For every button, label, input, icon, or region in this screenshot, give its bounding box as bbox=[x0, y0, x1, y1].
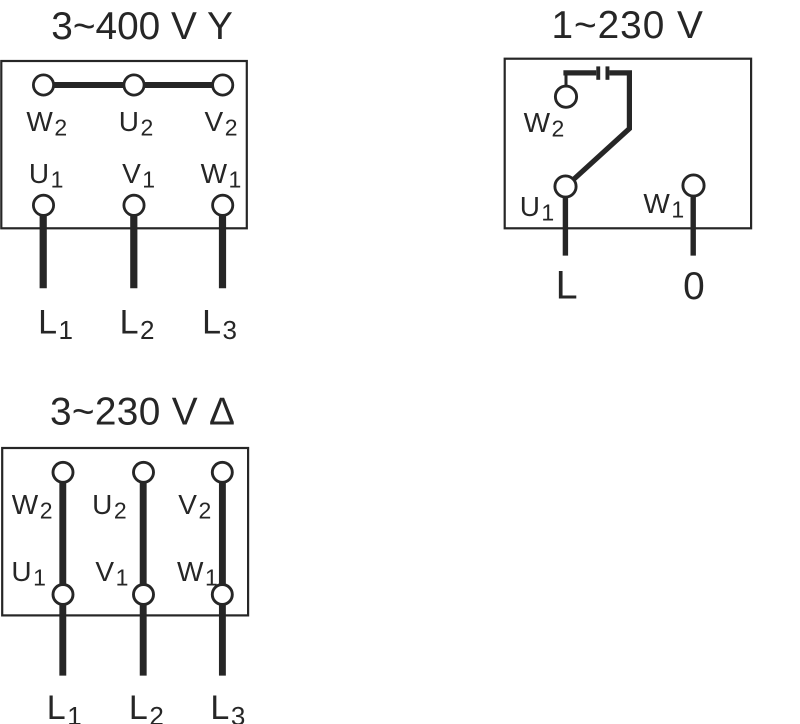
wire: U2-V1 link and lead L2 bbox=[140, 472, 147, 675]
terminal box (star) bbox=[1, 61, 247, 228]
terminal U2 (circle) bbox=[134, 462, 154, 482]
terminal U1 (circle) bbox=[53, 585, 73, 605]
terminal V1 (circle) bbox=[124, 195, 144, 215]
terminal W2 (circle) bbox=[555, 86, 576, 107]
terminal U1 (circle) bbox=[33, 195, 53, 215]
svg-text:W1: W1 bbox=[177, 556, 218, 591]
svg-text:W2: W2 bbox=[26, 106, 67, 141]
svg-text:U2: U2 bbox=[119, 106, 154, 141]
svg-text:0: 0 bbox=[683, 265, 705, 308]
terminal U1 (circle) bbox=[555, 176, 576, 197]
terminal V2 (circle) bbox=[212, 462, 232, 482]
svg-text:V2: V2 bbox=[178, 489, 211, 524]
terminal U2 (circle) bbox=[124, 75, 144, 95]
svg-text:3~230 V Δ: 3~230 V Δ bbox=[50, 390, 235, 433]
wire: V2-W1 link and lead L3 bbox=[219, 472, 226, 675]
terminal box (single phase) bbox=[505, 59, 751, 229]
svg-text:L3: L3 bbox=[202, 303, 237, 345]
wire: capacitor to U1 (right, down, diagonal) bbox=[566, 73, 630, 187]
svg-text:V1: V1 bbox=[95, 556, 128, 591]
svg-text:1~230 V: 1~230 V bbox=[552, 4, 704, 47]
terminal W1 (circle) bbox=[683, 175, 704, 196]
svg-text:L: L bbox=[556, 264, 578, 308]
svg-text:W1: W1 bbox=[643, 188, 684, 223]
svg-text:L1: L1 bbox=[38, 303, 73, 345]
wire: W2-U1 link and lead L1 bbox=[59, 472, 66, 675]
svg-text:W1: W1 bbox=[201, 158, 242, 193]
terminal W1 (circle) bbox=[213, 195, 233, 215]
svg-text:W2: W2 bbox=[12, 489, 53, 524]
svg-text:U1: U1 bbox=[520, 191, 555, 226]
wire: lead L1 bbox=[40, 205, 47, 288]
terminal box (delta) bbox=[2, 448, 248, 615]
wire: W2 to capacitor left plate bbox=[563, 70, 596, 75]
terminal V1 (circle) bbox=[134, 585, 154, 605]
svg-text:W2: W2 bbox=[524, 107, 565, 142]
svg-text:U1: U1 bbox=[11, 556, 46, 591]
capacitor left plate bbox=[596, 66, 600, 79]
wire: lead L bbox=[563, 197, 568, 256]
svg-text:U1: U1 bbox=[29, 158, 64, 193]
terminal V2 (circle) bbox=[213, 75, 233, 95]
wire: W2 stub up bbox=[565, 74, 568, 97]
wire: star bridge bar W2-U2-V2 bbox=[44, 82, 223, 88]
capacitor right plate bbox=[606, 66, 610, 79]
wire: lead 0 bbox=[691, 196, 696, 256]
svg-text:L1: L1 bbox=[47, 689, 82, 724]
svg-text:U2: U2 bbox=[92, 489, 127, 524]
svg-text:L2: L2 bbox=[120, 303, 155, 345]
svg-text:V1: V1 bbox=[122, 158, 155, 193]
terminal W2 (circle) bbox=[33, 75, 53, 95]
svg-text:L3: L3 bbox=[210, 689, 245, 724]
svg-text:3~400 V Y: 3~400 V Y bbox=[51, 5, 233, 48]
wire: lead L2 bbox=[130, 205, 137, 288]
svg-text:L2: L2 bbox=[129, 689, 164, 724]
svg-text:V2: V2 bbox=[205, 106, 238, 141]
terminal W1 (circle) bbox=[212, 585, 232, 605]
wire: lead L3 bbox=[219, 205, 226, 288]
terminal W2 (circle) bbox=[53, 462, 73, 482]
